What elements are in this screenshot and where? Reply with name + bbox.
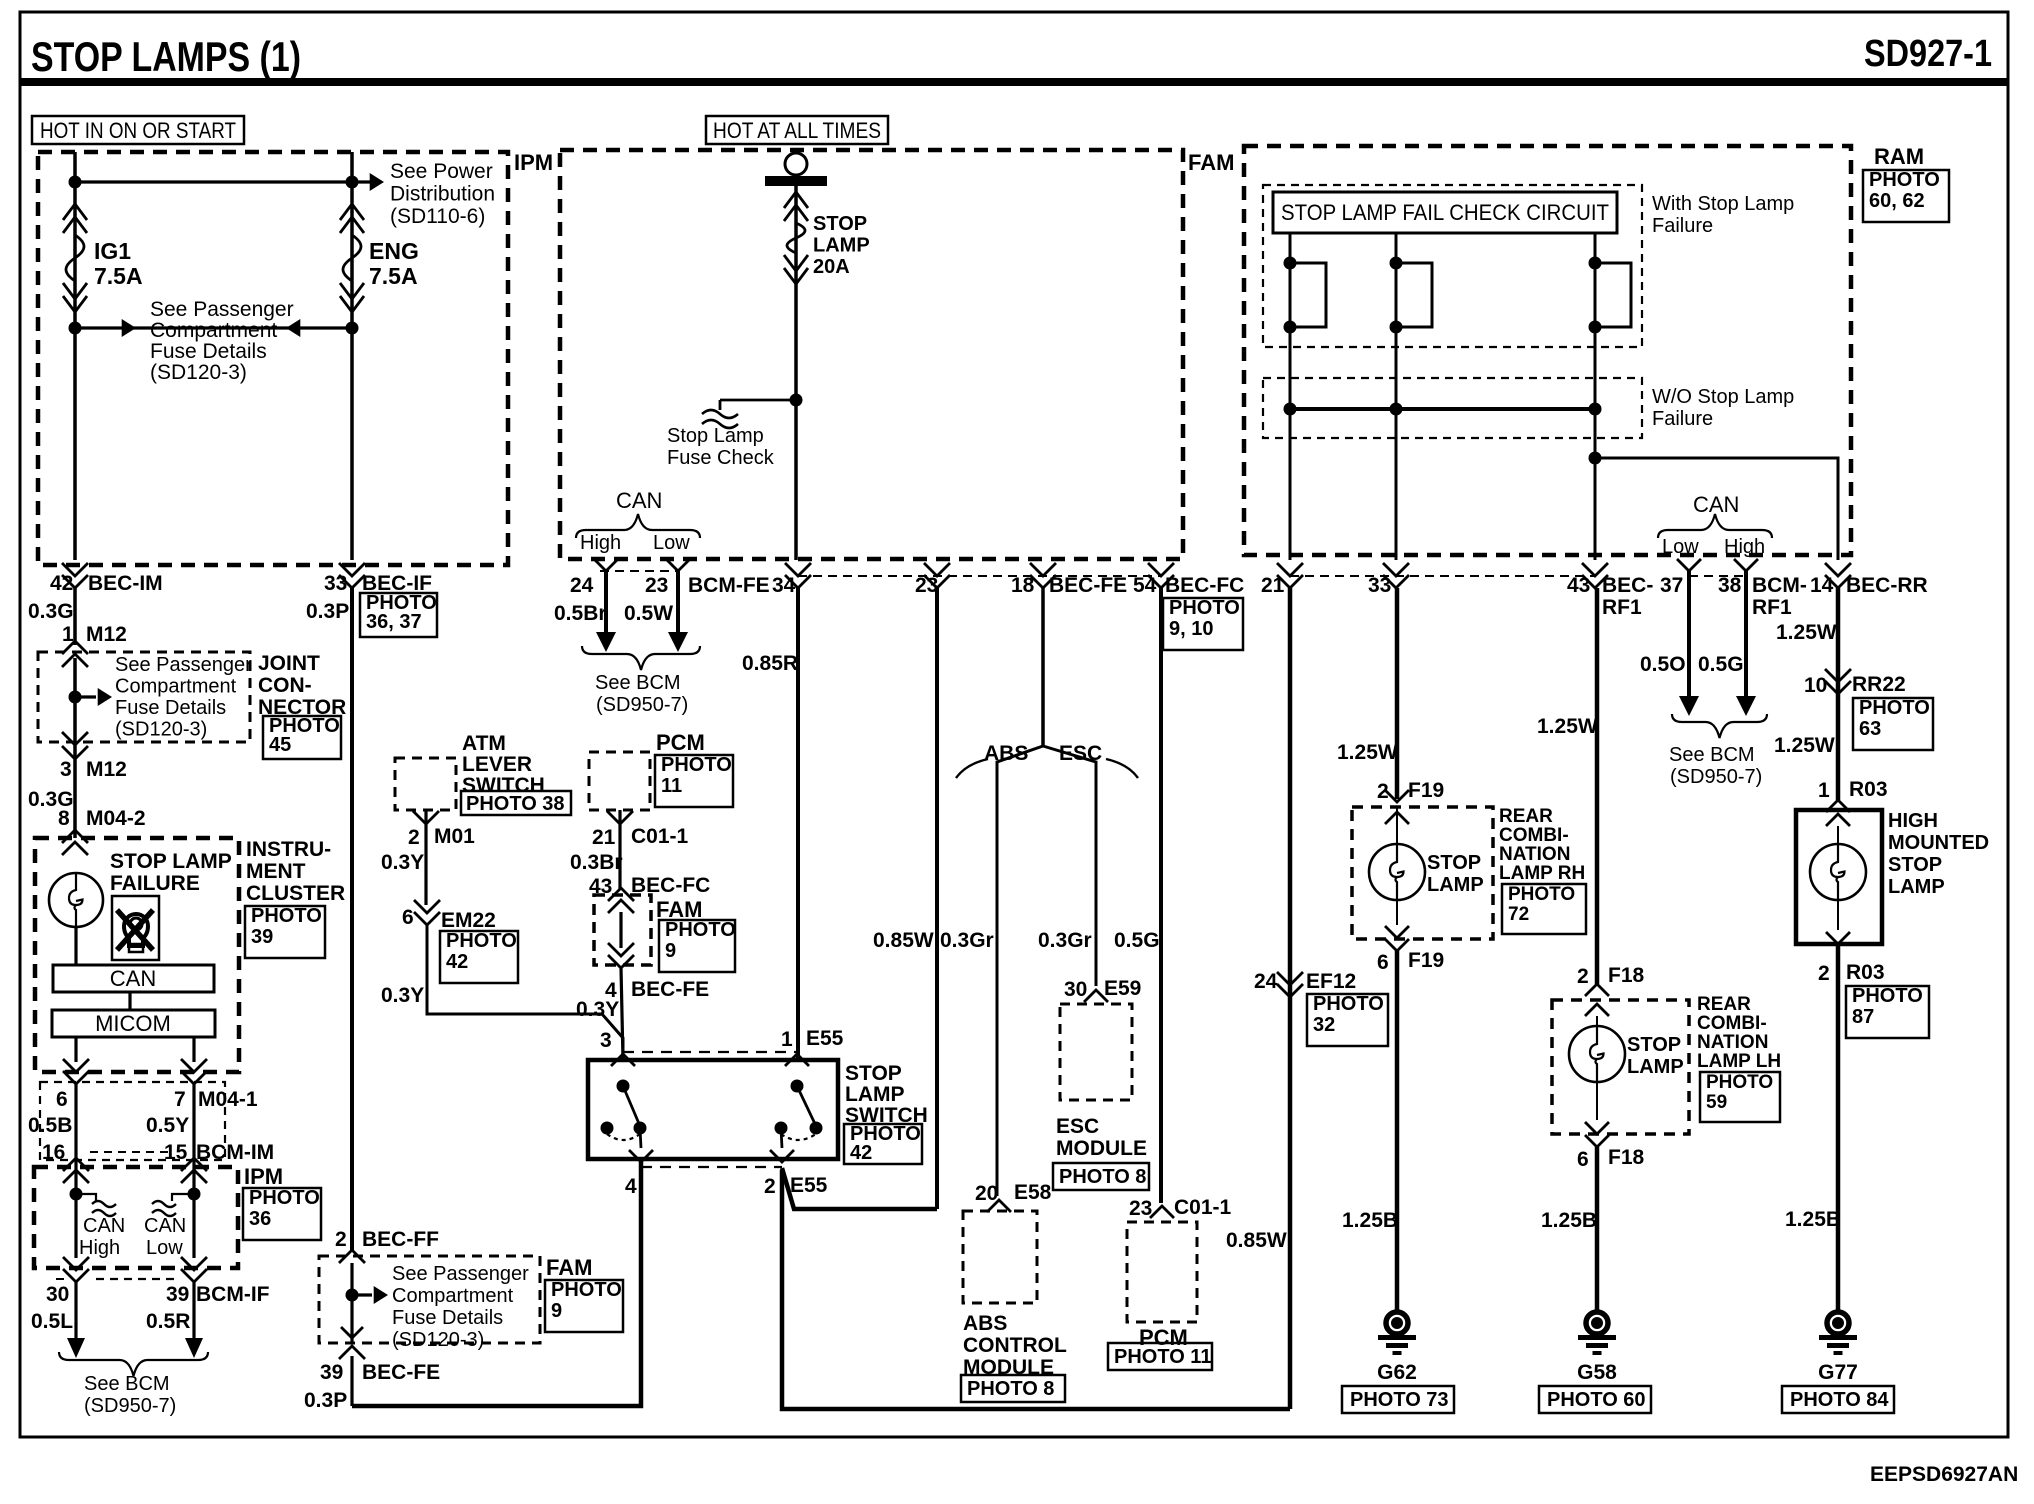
svg-text:LAMP: LAMP [845, 1083, 905, 1106]
svg-text:PHOTO 38: PHOTO 38 [466, 793, 565, 815]
svg-text:C01-1: C01-1 [1174, 1196, 1232, 1219]
svg-text:Fuse Details: Fuse Details [392, 1307, 503, 1329]
svg-text:72: 72 [1508, 904, 1529, 925]
svg-text:16: 16 [42, 1141, 65, 1164]
svg-text:PCM: PCM [656, 730, 705, 755]
svg-text:LAMP RH: LAMP RH [1499, 863, 1585, 884]
svg-text:11: 11 [661, 775, 682, 797]
svg-text:Compartment: Compartment [115, 676, 237, 698]
svg-text:24: 24 [570, 574, 594, 597]
svg-text:See BCM: See BCM [84, 1373, 170, 1395]
svg-text:0.3Y: 0.3Y [381, 851, 424, 874]
svg-text:CLUSTER: CLUSTER [246, 882, 345, 905]
svg-text:36, 37: 36, 37 [366, 611, 422, 633]
svg-text:G58: G58 [1577, 1361, 1617, 1384]
svg-text:0.5G: 0.5G [1698, 653, 1744, 676]
svg-text:Failure: Failure [1652, 215, 1713, 237]
svg-text:1: 1 [1818, 779, 1830, 802]
svg-text:RF1: RF1 [1602, 596, 1642, 619]
svg-text:21: 21 [592, 826, 616, 849]
svg-text:63: 63 [1859, 718, 1881, 740]
svg-text:45: 45 [269, 734, 291, 756]
svg-text:2: 2 [764, 1175, 776, 1198]
svg-text:6: 6 [402, 906, 414, 929]
svg-text:SD927-1: SD927-1 [1864, 33, 1992, 75]
svg-text:F19: F19 [1408, 949, 1444, 972]
svg-text:RF1: RF1 [1752, 596, 1792, 619]
svg-text:ATM: ATM [462, 732, 506, 755]
svg-text:See BCM: See BCM [595, 672, 681, 694]
svg-text:23: 23 [645, 574, 668, 597]
svg-text:PHOTO: PHOTO [1859, 697, 1930, 719]
svg-text:6: 6 [56, 1088, 68, 1111]
svg-text:PHOTO 84: PHOTO 84 [1790, 1389, 1889, 1411]
svg-text:0.3Gr: 0.3Gr [940, 929, 994, 952]
svg-text:IPM: IPM [514, 150, 553, 175]
svg-text:CAN: CAN [1693, 492, 1739, 517]
svg-text:Distribution: Distribution [390, 183, 495, 206]
svg-text:BEC-RR: BEC-RR [1846, 574, 1928, 597]
svg-text:High: High [1724, 536, 1765, 558]
svg-text:STOP LAMP: STOP LAMP [110, 850, 232, 873]
svg-text:R03: R03 [1849, 778, 1888, 801]
svg-text:See BCM: See BCM [1669, 744, 1755, 766]
svg-text:PHOTO: PHOTO [1169, 597, 1240, 619]
svg-text:NATION: NATION [1499, 844, 1570, 865]
svg-text:C01-1: C01-1 [631, 825, 689, 848]
svg-text:E58: E58 [1014, 1181, 1052, 1204]
svg-text:PHOTO 60: PHOTO 60 [1547, 1389, 1646, 1411]
svg-text:18: 18 [1011, 574, 1035, 597]
svg-text:42: 42 [446, 951, 468, 973]
svg-text:6: 6 [1377, 951, 1389, 974]
svg-text:Fuse Check: Fuse Check [667, 447, 775, 469]
svg-text:24: 24 [1254, 970, 1278, 993]
svg-text:M12: M12 [86, 623, 127, 646]
svg-text:9: 9 [551, 1300, 562, 1322]
svg-text:EEPSD6927AN: EEPSD6927AN [1870, 1463, 2018, 1486]
svg-text:BCM-: BCM- [1752, 574, 1807, 597]
svg-text:87: 87 [1852, 1006, 1874, 1028]
svg-text:0.3P: 0.3P [306, 600, 349, 623]
svg-text:10: 10 [1804, 674, 1827, 697]
svg-text:7.5A: 7.5A [94, 263, 143, 289]
svg-text:MODULE: MODULE [1056, 1137, 1147, 1160]
svg-text:33: 33 [1368, 574, 1391, 597]
svg-text:HIGH: HIGH [1888, 810, 1938, 832]
svg-text:9, 10: 9, 10 [1169, 618, 1213, 640]
svg-text:4: 4 [625, 1175, 637, 1198]
svg-text:PHOTO: PHOTO [665, 919, 736, 941]
svg-text:JOINT: JOINT [258, 652, 320, 675]
svg-text:FAM: FAM [546, 1255, 592, 1280]
svg-text:BEC-FF: BEC-FF [362, 1228, 439, 1251]
svg-text:60, 62: 60, 62 [1869, 190, 1925, 212]
svg-text:ABS: ABS [963, 1312, 1007, 1335]
svg-text:BEC-IM: BEC-IM [88, 572, 163, 595]
svg-text:CAN: CAN [144, 1215, 186, 1237]
svg-text:FAILURE: FAILURE [110, 872, 200, 895]
svg-text:3: 3 [60, 758, 72, 781]
svg-text:2: 2 [335, 1228, 347, 1251]
svg-text:9: 9 [665, 940, 676, 962]
svg-text:Compartment: Compartment [392, 1285, 514, 1307]
svg-text:33: 33 [324, 572, 347, 595]
svg-text:CAN: CAN [110, 966, 156, 991]
svg-text:Fuse Details: Fuse Details [150, 340, 267, 363]
svg-text:PHOTO 8: PHOTO 8 [967, 1378, 1054, 1400]
svg-text:20: 20 [975, 1182, 998, 1205]
svg-text:W/O Stop Lamp: W/O Stop Lamp [1652, 386, 1794, 408]
svg-text:STOP: STOP [1627, 1034, 1681, 1056]
svg-text:LAMP: LAMP [1627, 1056, 1684, 1078]
svg-text:43: 43 [1567, 574, 1590, 597]
svg-text:14: 14 [1810, 574, 1834, 597]
svg-text:CAN: CAN [616, 488, 662, 513]
svg-text:0.85W: 0.85W [873, 929, 934, 952]
svg-text:BCM-IF: BCM-IF [196, 1283, 270, 1306]
svg-text:0.3Br: 0.3Br [570, 851, 623, 874]
svg-text:2: 2 [408, 826, 420, 849]
svg-text:F18: F18 [1608, 1146, 1645, 1169]
svg-text:PHOTO: PHOTO [1508, 884, 1575, 905]
svg-text:1.25W: 1.25W [1776, 621, 1837, 644]
svg-text:32: 32 [1313, 1014, 1335, 1036]
svg-text:See Power: See Power [390, 160, 493, 183]
svg-text:ESC: ESC [1059, 742, 1102, 765]
svg-text:LAMP: LAMP [1888, 876, 1945, 898]
svg-text:BEC-FE: BEC-FE [631, 978, 709, 1001]
svg-text:COMBI-: COMBI- [1499, 825, 1569, 846]
svg-text:COMBI-: COMBI- [1697, 1013, 1767, 1034]
svg-text:REAR: REAR [1697, 994, 1751, 1015]
svg-text:STOP LAMP FAIL CHECK CIRCUIT: STOP LAMP FAIL CHECK CIRCUIT [1281, 200, 1609, 225]
svg-text:CON-: CON- [258, 674, 312, 697]
svg-text:M01: M01 [434, 825, 475, 848]
svg-text:21: 21 [1261, 574, 1285, 597]
svg-text:0.3Y: 0.3Y [381, 984, 424, 1007]
svg-text:BEC-FC: BEC-FC [631, 874, 710, 897]
svg-text:0.85R: 0.85R [742, 652, 798, 675]
svg-text:30: 30 [46, 1283, 69, 1306]
svg-text:(SD120-3): (SD120-3) [115, 719, 207, 741]
svg-text:0.5L: 0.5L [31, 1310, 73, 1333]
svg-text:E55: E55 [790, 1174, 828, 1197]
svg-text:PHOTO: PHOTO [249, 1187, 320, 1209]
svg-text:42: 42 [50, 572, 73, 595]
svg-text:Compartment: Compartment [150, 319, 277, 342]
svg-text:37: 37 [1660, 574, 1683, 597]
svg-text:MOUNTED: MOUNTED [1888, 832, 1989, 854]
svg-text:(SD950-7): (SD950-7) [1670, 766, 1762, 788]
svg-text:BEC-FC: BEC-FC [1165, 574, 1244, 597]
svg-text:High: High [580, 532, 621, 554]
svg-text:2: 2 [1818, 962, 1830, 985]
svg-text:LAMP LH: LAMP LH [1697, 1051, 1781, 1072]
svg-text:PHOTO: PHOTO [551, 1279, 622, 1301]
svg-text:1.25W: 1.25W [1537, 715, 1598, 738]
svg-text:(SD120-3): (SD120-3) [392, 1329, 484, 1351]
svg-text:PHOTO: PHOTO [251, 905, 322, 927]
svg-text:54: 54 [1133, 574, 1157, 597]
svg-text:23: 23 [1129, 1197, 1152, 1220]
svg-text:(SD120-3): (SD120-3) [150, 361, 247, 384]
svg-text:Low: Low [146, 1237, 183, 1259]
svg-text:20A: 20A [813, 256, 850, 278]
svg-text:STOP: STOP [1427, 852, 1481, 874]
svg-text:PHOTO: PHOTO [1706, 1072, 1773, 1093]
svg-text:BCM-FE: BCM-FE [688, 574, 770, 597]
svg-text:CAN: CAN [83, 1215, 125, 1237]
svg-text:36: 36 [249, 1208, 271, 1230]
svg-text:PHOTO: PHOTO [446, 930, 517, 952]
svg-text:R03: R03 [1846, 961, 1885, 984]
svg-text:0.5Y: 0.5Y [146, 1114, 189, 1137]
svg-text:LAMP: LAMP [1427, 874, 1484, 896]
svg-text:BEC-: BEC- [1602, 574, 1653, 597]
svg-text:Fuse Details: Fuse Details [115, 697, 226, 719]
svg-text:1.25W: 1.25W [1337, 741, 1398, 764]
svg-text:ESC: ESC [1056, 1115, 1099, 1138]
svg-text:STOP LAMPS (1): STOP LAMPS (1) [31, 33, 301, 80]
svg-text:1.25W: 1.25W [1774, 734, 1835, 757]
svg-text:0.3G: 0.3G [28, 600, 74, 623]
svg-text:0.5W: 0.5W [624, 602, 673, 625]
svg-text:MICOM: MICOM [95, 1011, 171, 1036]
svg-text:BCM-IM: BCM-IM [196, 1141, 274, 1164]
svg-text:IPM: IPM [244, 1164, 283, 1189]
svg-text:59: 59 [1706, 1092, 1727, 1113]
svg-text:PHOTO: PHOTO [1852, 985, 1923, 1007]
svg-text:LEVER: LEVER [462, 753, 532, 776]
svg-text:(SD950-7): (SD950-7) [596, 694, 688, 716]
svg-text:ENG: ENG [369, 238, 419, 264]
svg-text:3: 3 [600, 1029, 612, 1052]
svg-text:7.5A: 7.5A [369, 263, 418, 289]
svg-text:(SD950-7): (SD950-7) [84, 1395, 176, 1417]
svg-text:STOP: STOP [1888, 854, 1942, 876]
svg-text:0.3Y: 0.3Y [576, 998, 619, 1021]
svg-text:HOT AT ALL TIMES: HOT AT ALL TIMES [713, 118, 881, 143]
svg-text:PHOTO 11: PHOTO 11 [1114, 1346, 1211, 1368]
svg-text:1.25B: 1.25B [1785, 1208, 1841, 1231]
svg-text:E59: E59 [1104, 977, 1141, 1000]
svg-text:0.85W: 0.85W [1226, 1229, 1287, 1252]
svg-text:0.5B: 0.5B [28, 1114, 72, 1137]
svg-text:39: 39 [251, 926, 273, 948]
svg-text:0.5O: 0.5O [1640, 653, 1686, 676]
svg-text:PHOTO: PHOTO [661, 754, 732, 776]
svg-text:NATION: NATION [1697, 1032, 1768, 1053]
svg-text:39: 39 [166, 1283, 189, 1306]
svg-text:PHOTO: PHOTO [1313, 993, 1384, 1015]
svg-text:See Passenger: See Passenger [392, 1263, 529, 1285]
svg-text:0.3P: 0.3P [304, 1389, 347, 1412]
svg-text:0.3Gr: 0.3Gr [1038, 929, 1092, 952]
svg-text:EM22: EM22 [441, 909, 496, 932]
svg-text:PHOTO 8: PHOTO 8 [1059, 1166, 1146, 1188]
svg-text:MENT: MENT [246, 860, 306, 883]
svg-text:STOP: STOP [845, 1062, 902, 1085]
svg-text:M04-1: M04-1 [198, 1088, 258, 1111]
svg-text:EF12: EF12 [1306, 970, 1356, 993]
svg-text:FAM: FAM [1188, 150, 1234, 175]
svg-text:Stop Lamp: Stop Lamp [667, 425, 764, 447]
svg-text:RR22: RR22 [1852, 673, 1906, 696]
svg-text:M12: M12 [86, 758, 127, 781]
svg-text:Low: Low [653, 532, 690, 554]
svg-text:7: 7 [174, 1088, 186, 1111]
svg-text:High: High [79, 1237, 120, 1259]
svg-text:G77: G77 [1818, 1361, 1858, 1384]
svg-text:CONTROL: CONTROL [963, 1334, 1067, 1357]
svg-text:See Passenger: See Passenger [115, 654, 252, 676]
svg-text:34: 34 [772, 574, 796, 597]
svg-text:ABS: ABS [984, 742, 1028, 765]
svg-text:With Stop Lamp: With Stop Lamp [1652, 193, 1794, 215]
svg-text:42: 42 [850, 1142, 872, 1164]
svg-text:F18: F18 [1608, 964, 1645, 987]
svg-text:23: 23 [915, 574, 938, 597]
svg-text:1.25B: 1.25B [1342, 1209, 1398, 1232]
svg-text:Low: Low [1662, 536, 1699, 558]
svg-text:IG1: IG1 [94, 238, 131, 264]
svg-text:PHOTO: PHOTO [1869, 169, 1940, 191]
svg-text:39: 39 [320, 1361, 343, 1384]
svg-text:E55: E55 [806, 1027, 844, 1050]
svg-text:BEC-FE: BEC-FE [362, 1361, 440, 1384]
svg-text:INSTRU-: INSTRU- [246, 838, 331, 861]
svg-text:BEC-FE: BEC-FE [1049, 574, 1127, 597]
svg-text:PHOTO 73: PHOTO 73 [1350, 1389, 1449, 1411]
svg-text:6: 6 [1577, 1148, 1589, 1171]
svg-text:See Passenger: See Passenger [150, 298, 294, 321]
svg-text:2: 2 [1577, 965, 1589, 988]
svg-text:HOT IN ON OR START: HOT IN ON OR START [40, 118, 236, 143]
svg-text:M04-2: M04-2 [86, 807, 146, 830]
svg-text:8: 8 [58, 807, 70, 830]
svg-text:0.5Br: 0.5Br [554, 602, 607, 625]
svg-text:LAMP: LAMP [813, 235, 870, 257]
svg-text:0.5G: 0.5G [1114, 929, 1160, 952]
svg-text:F19: F19 [1408, 779, 1444, 802]
svg-text:1.25B: 1.25B [1541, 1209, 1597, 1232]
svg-text:Failure: Failure [1652, 408, 1713, 430]
svg-text:1: 1 [781, 1028, 793, 1051]
svg-text:G62: G62 [1377, 1361, 1417, 1384]
svg-text:30: 30 [1064, 978, 1087, 1001]
svg-text:(SD110-6): (SD110-6) [390, 205, 485, 228]
svg-text:STOP: STOP [813, 213, 867, 235]
svg-text:REAR: REAR [1499, 806, 1553, 827]
svg-text:38: 38 [1718, 574, 1742, 597]
svg-text:RAM: RAM [1874, 144, 1924, 169]
svg-text:0.5R: 0.5R [146, 1310, 190, 1333]
